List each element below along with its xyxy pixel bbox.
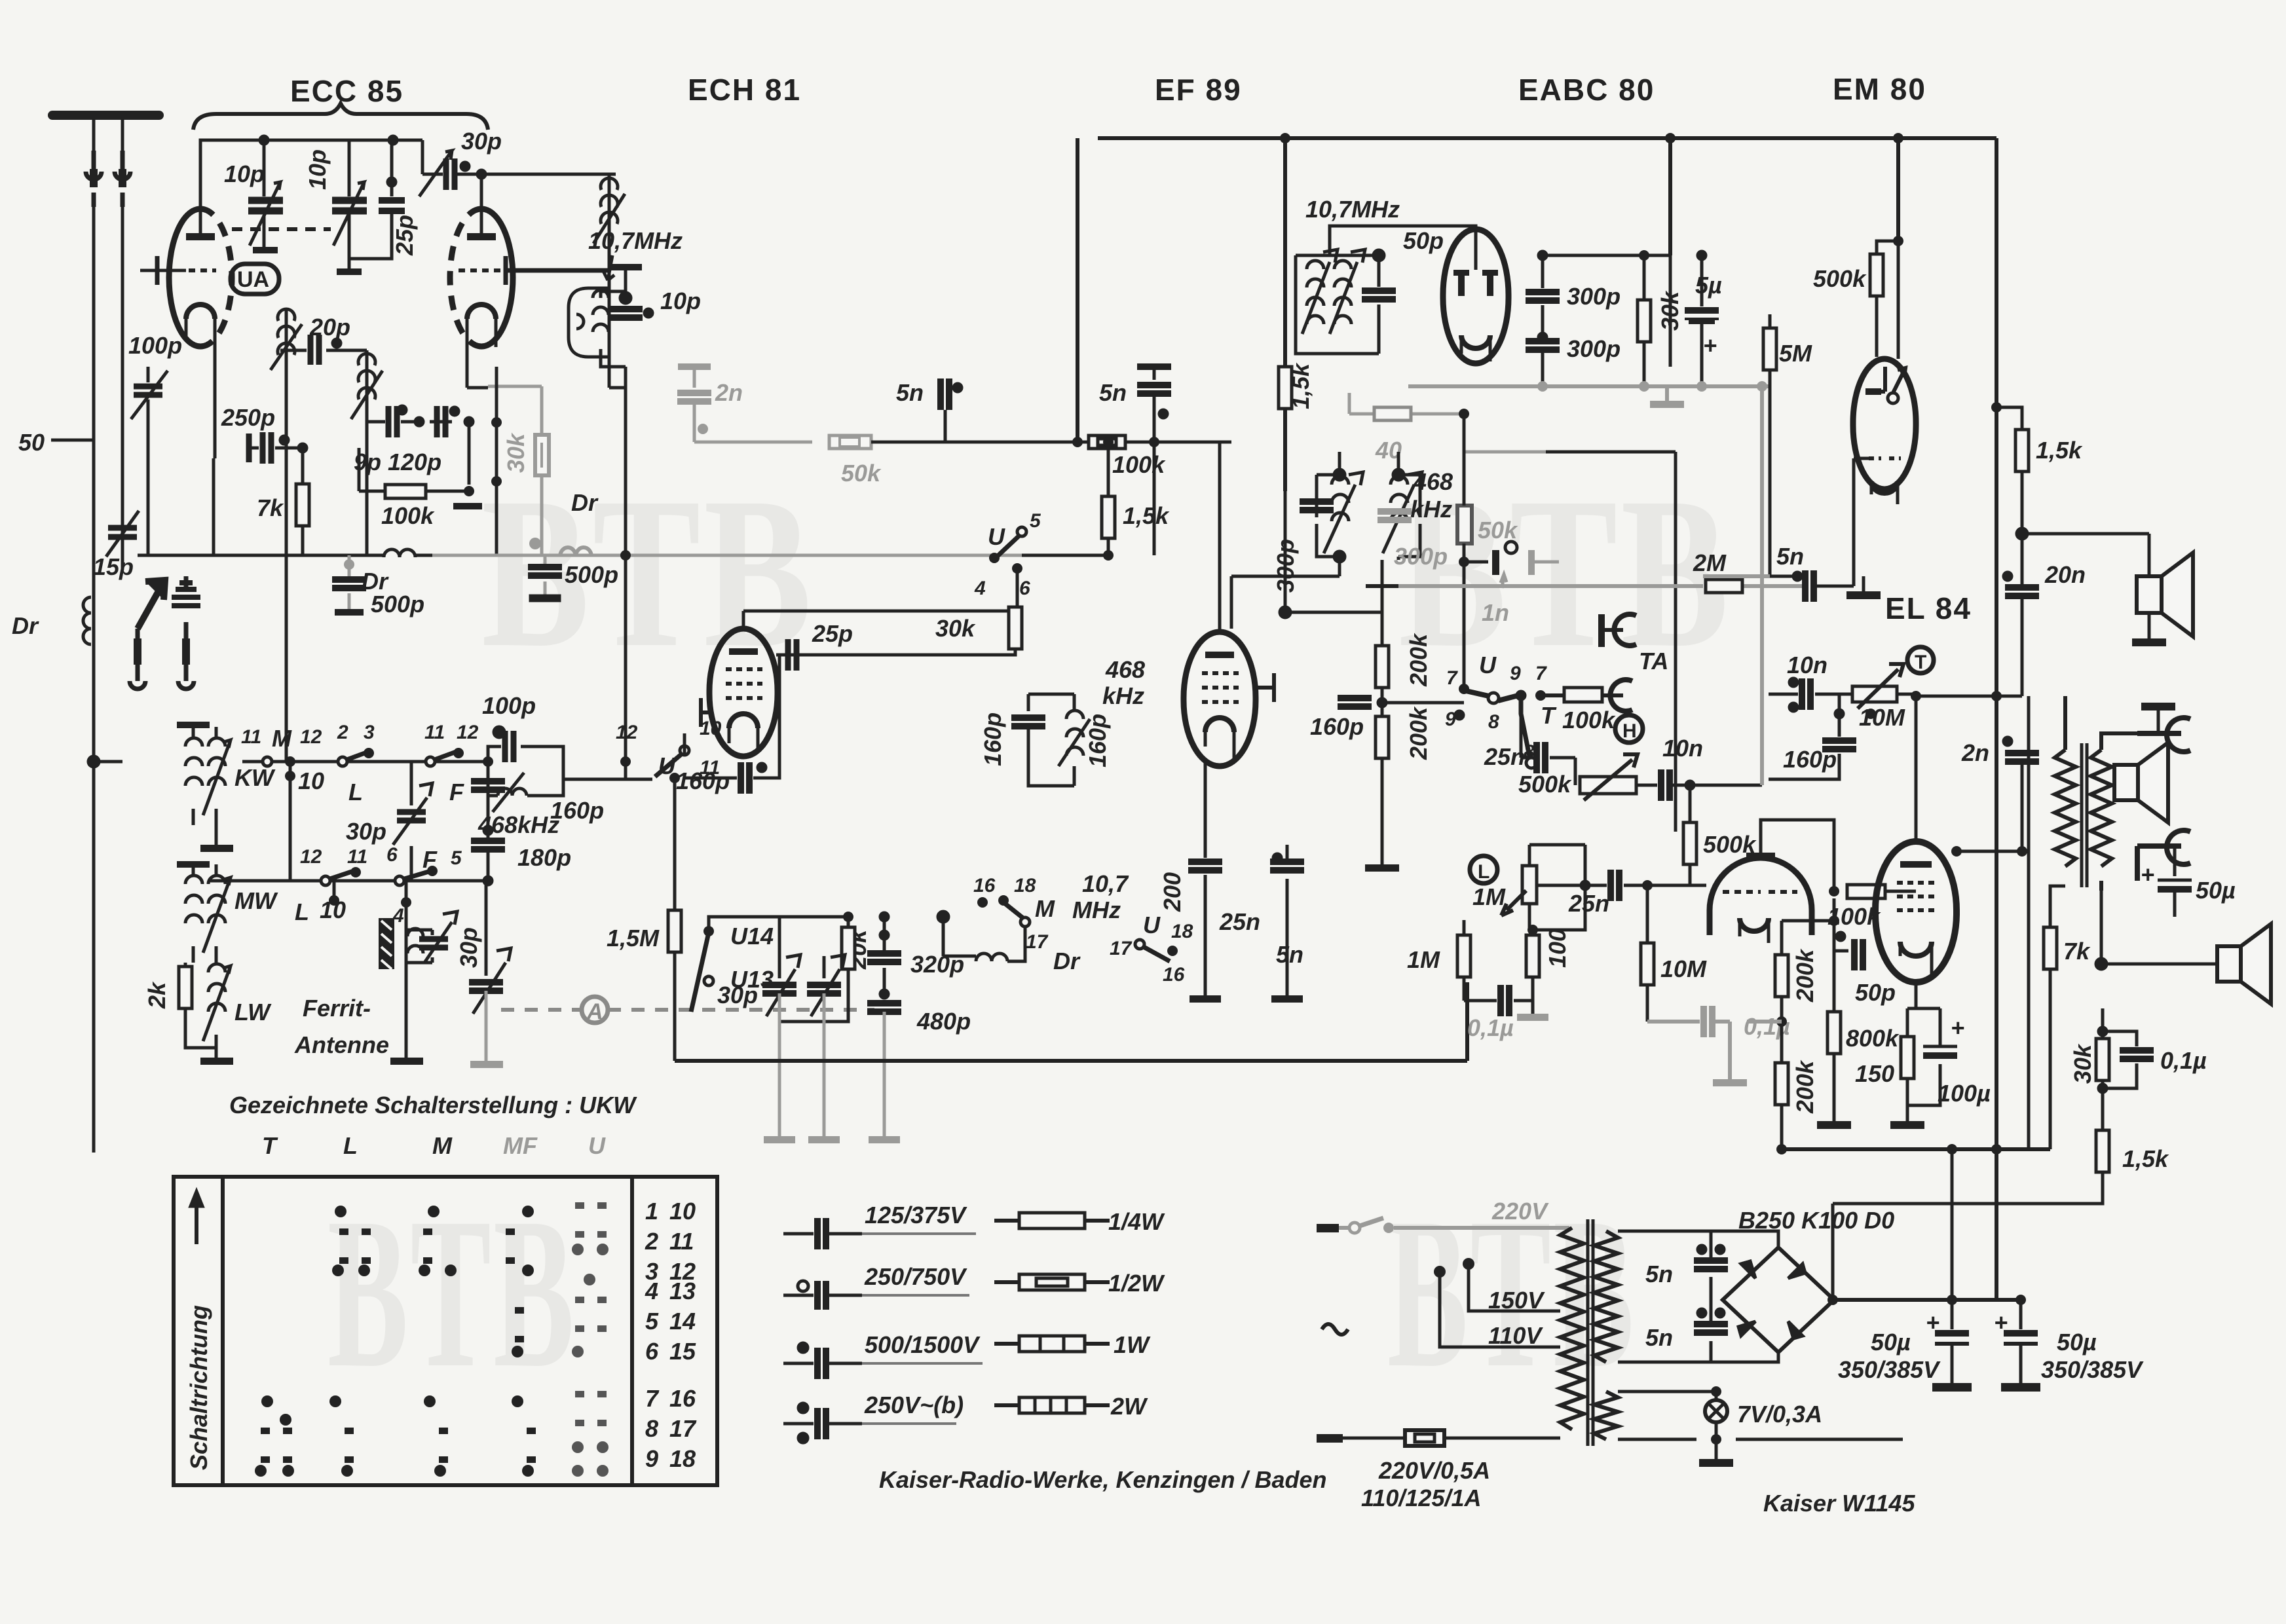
svg-text:14: 14: [669, 1308, 696, 1335]
switch position table frame: [174, 1177, 717, 1485]
svg-text:1M: 1M: [1407, 946, 1440, 973]
HT leads to bridge: [1618, 1231, 1778, 1362]
svg-text:+: +: [1951, 1014, 1964, 1041]
svg-text:MW: MW: [234, 887, 278, 914]
wire box feedback: [1464, 452, 1676, 832]
table row numbers: [645, 1198, 697, 1472]
svg-text:100µ: 100µ: [1938, 1080, 1991, 1107]
node A with dashed AGC line: [582, 997, 608, 1023]
wire main bottom bus: [675, 1059, 1467, 1063]
svg-text:5n: 5n: [1776, 543, 1804, 570]
antenna plug left: [86, 151, 102, 207]
svg-text:ECH 81: ECH 81: [688, 73, 801, 107]
coil KW antenna: [177, 725, 231, 845]
svg-text:1,5k: 1,5k: [1123, 502, 1170, 529]
svg-text:160p: 160p: [1310, 713, 1364, 740]
power transformer primary: [1560, 1219, 1593, 1446]
wire top bus to detector: [1543, 255, 1670, 367]
svg-text:100p: 100p: [128, 332, 182, 359]
wire row1 to oscillator switch: [576, 778, 616, 781]
svg-text:25p: 25p: [812, 620, 853, 647]
svg-text:500p: 500p: [565, 561, 618, 588]
svg-text:300p: 300p: [1394, 543, 1448, 570]
ferrite rod antenna: [379, 918, 394, 969]
svg-text:12: 12: [616, 722, 638, 743]
svg-text:12: 12: [300, 846, 322, 868]
svg-text:10p: 10p: [660, 287, 701, 314]
potentiometer 500k treble: [1615, 715, 1643, 743]
svg-text:160p: 160p: [1084, 714, 1111, 767]
svg-text:100: 100: [1544, 929, 1571, 968]
svg-text:EABC 80: EABC 80: [1518, 73, 1655, 107]
svg-text:5: 5: [1030, 510, 1041, 532]
svg-text:2n: 2n: [1961, 739, 1989, 766]
brace under ECC85: [193, 103, 488, 130]
svg-text:M: M: [272, 725, 292, 752]
svg-text:50µ: 50µ: [2057, 1329, 2097, 1356]
svg-text:7k: 7k: [2063, 938, 2091, 965]
svg-text:15: 15: [669, 1338, 696, 1365]
svg-text:2: 2: [645, 1228, 658, 1255]
svg-text:2n: 2n: [715, 379, 743, 406]
svg-text:H: H: [1622, 720, 1637, 742]
svg-text:0,1µ: 0,1µ: [1467, 1014, 1514, 1041]
svg-text:500/1500V: 500/1500V: [865, 1331, 981, 1358]
svg-text:11: 11: [669, 1228, 694, 1255]
svg-text:L: L: [343, 1132, 358, 1159]
svg-text:A: A: [586, 999, 603, 1024]
svg-text:10,7MHz: 10,7MHz: [1305, 196, 1400, 223]
svg-text:2k: 2k: [143, 981, 170, 1009]
svg-text:300p: 300p: [1567, 335, 1621, 362]
svg-text:17: 17: [669, 1415, 697, 1442]
svg-text:M: M: [1035, 895, 1055, 922]
capacitor 15p variable: [121, 504, 124, 570]
svg-text:16: 16: [1163, 964, 1185, 986]
svg-text:16: 16: [973, 875, 996, 896]
badge UA: [231, 264, 279, 294]
svg-text:110V: 110V: [1488, 1322, 1543, 1349]
svg-text:200k: 200k: [1405, 633, 1432, 687]
svg-text:20p: 20p: [309, 314, 350, 341]
svg-text:300p: 300p: [1567, 283, 1621, 310]
svg-text:500k: 500k: [1813, 265, 1867, 292]
svg-text:50k: 50k: [1478, 517, 1518, 544]
svg-text:Dr: Dr: [1053, 948, 1081, 974]
svg-text:100k: 100k: [381, 502, 435, 529]
svg-text:20n: 20n: [2044, 561, 2086, 588]
AVC bus gray: [1366, 584, 1808, 588]
mains switch: [1317, 1224, 1339, 1232]
svg-text:11: 11: [347, 846, 367, 868]
tube ECH81 heptode: [701, 611, 778, 756]
wire bus 848 black tail: [1022, 554, 1107, 557]
svg-text:6: 6: [386, 844, 398, 866]
svg-text:480p: 480p: [916, 1008, 971, 1035]
svg-text:1n: 1n: [1482, 599, 1509, 626]
transformer HT secondary: [1594, 1231, 1618, 1362]
svg-text:Antenne: Antenne: [294, 1031, 389, 1058]
svg-text:25n: 25n: [1568, 890, 1609, 917]
svg-text:Gezeichnete Schalterstellung :: Gezeichnete Schalterstellung : UKW: [229, 1092, 637, 1118]
svg-text:5n: 5n: [1645, 1324, 1673, 1351]
svg-text:120p: 120p: [388, 449, 441, 475]
speaker output mid: [2114, 743, 2168, 822]
svg-text:M: M: [432, 1132, 453, 1159]
svg-text:1W: 1W: [1114, 1331, 1151, 1358]
wire top B+ bus: [1077, 138, 1996, 1300]
svg-text:220V/0,5A: 220V/0,5A: [1378, 1457, 1490, 1484]
svg-text:KW: KW: [234, 764, 276, 791]
svg-text:468: 468: [1105, 656, 1145, 683]
svg-text:25p: 25p: [391, 215, 418, 256]
svg-text:9: 9: [1510, 663, 1521, 684]
svg-text:1M: 1M: [1472, 883, 1506, 910]
svg-text:25n: 25n: [1219, 908, 1260, 935]
capacitor 250p: [147, 485, 150, 517]
svg-text:T: T: [262, 1132, 278, 1159]
gray bus with coil: [432, 554, 1022, 557]
svg-text:MF: MF: [503, 1132, 538, 1159]
svg-text:1/2W: 1/2W: [1108, 1270, 1165, 1297]
svg-text:160p: 160p: [979, 712, 1006, 766]
coil interstage: [271, 308, 302, 762]
svg-text:10: 10: [700, 718, 722, 739]
svg-text:18: 18: [1171, 921, 1193, 942]
output transformer: [2055, 696, 2141, 891]
bus bottom right: [1778, 1147, 2050, 1151]
trimmer capacitor 10p #1: [248, 135, 283, 253]
capacitor 100p variable: [147, 367, 150, 485]
svg-text:LW: LW: [234, 999, 272, 1025]
ground stub: [453, 503, 482, 509]
wire EL84 anode junction row: [1957, 850, 2022, 853]
svg-text:MHz: MHz: [1072, 896, 1121, 923]
svg-text:17: 17: [1026, 931, 1049, 953]
svg-text:L: L: [348, 779, 363, 805]
svg-text:5n: 5n: [1276, 941, 1303, 968]
svg-text:500p: 500p: [371, 591, 424, 618]
svg-text:18: 18: [1014, 875, 1036, 896]
svg-text:160p: 160p: [676, 767, 730, 794]
svg-text:18: 18: [669, 1445, 696, 1472]
svg-text:1/4W: 1/4W: [1108, 1208, 1165, 1235]
svg-text:9: 9: [1445, 709, 1456, 730]
svg-text:10p: 10p: [304, 149, 331, 190]
svg-text:EF 89: EF 89: [1155, 73, 1242, 107]
svg-text:U: U: [1143, 912, 1161, 938]
wire EM80 grid from 5n: [1854, 458, 1869, 586]
svg-text:EM 80: EM 80: [1833, 72, 1926, 106]
tube EABC80 triode: [1710, 841, 1812, 943]
switch row 2 pins 12 11 6 F 5: [210, 871, 488, 885]
svg-text:30k: 30k: [502, 432, 529, 473]
svg-text:30k: 30k: [1657, 290, 1683, 331]
svg-text:10p: 10p: [224, 160, 265, 187]
svg-text:5n: 5n: [896, 379, 924, 406]
antenna plug right: [115, 151, 130, 207]
svg-text:50p: 50p: [1855, 979, 1896, 1006]
wire IF2 to EF89 anode: [1231, 560, 1382, 629]
counterpoise capacitor symbol: [172, 576, 200, 689]
svg-text:U14: U14: [730, 923, 774, 950]
svg-text:7: 7: [645, 1385, 660, 1412]
triode V1a ECC85: [140, 140, 422, 458]
svg-text:+: +: [1703, 332, 1717, 359]
svg-text:10M: 10M: [1660, 955, 1707, 982]
node 50 lead: [51, 439, 94, 442]
gray return bus det: [1408, 386, 1769, 586]
svg-text:T: T: [1541, 702, 1557, 729]
svg-text:12: 12: [457, 722, 479, 743]
svg-text:Ferrit-: Ferrit-: [303, 995, 371, 1022]
speaker field coil top: [2137, 553, 2193, 638]
coil LW: [185, 956, 231, 1058]
svg-text:7: 7: [1446, 667, 1458, 689]
symbol AC: [1322, 1324, 1348, 1335]
svg-text:5n: 5n: [1645, 1261, 1673, 1287]
svg-text:200k: 200k: [1405, 706, 1432, 760]
svg-text:8: 8: [645, 1415, 658, 1442]
ground EL84 label: [1862, 576, 1865, 591]
svg-text:300p: 300p: [1272, 539, 1299, 593]
svg-text:6: 6: [1019, 578, 1030, 599]
svg-text:T: T: [1915, 652, 1926, 673]
svg-text:10n: 10n: [1787, 652, 1827, 678]
svg-text:15p: 15p: [93, 553, 134, 580]
svg-text:1: 1: [645, 1198, 658, 1225]
svg-text:200: 200: [1159, 872, 1186, 912]
capacitor 300p gray IF2: [1377, 458, 1412, 557]
svg-text:150V: 150V: [1488, 1287, 1545, 1314]
svg-text:Schaltrichtung: Schaltrichtung: [185, 1305, 212, 1470]
IF transformer 468kHz no1: [1011, 694, 1090, 786]
svg-text:Dr: Dr: [12, 612, 39, 639]
svg-text:30p: 30p: [461, 128, 502, 155]
svg-text:5: 5: [451, 847, 462, 869]
svg-text:L: L: [295, 898, 309, 925]
svg-text:4: 4: [974, 578, 986, 599]
tube EL84 output pentode: [1875, 696, 1957, 982]
svg-text:50: 50: [18, 429, 45, 456]
potentiometer 1M volume: [1470, 856, 1497, 883]
mains plug and fuse: [1317, 1434, 1343, 1443]
svg-text:200k: 200k: [1791, 948, 1818, 1003]
wire EL84 screen to speaker field: [2017, 528, 2149, 576]
svg-text:11: 11: [241, 726, 261, 748]
svg-text:100k: 100k: [1562, 707, 1616, 733]
svg-text:10M: 10M: [1859, 704, 1905, 731]
svg-text:16: 16: [669, 1385, 696, 1412]
svg-text:B250 K100 D0: B250 K100 D0: [1738, 1207, 1894, 1234]
svg-text:17: 17: [1110, 938, 1133, 959]
svg-text:7k: 7k: [257, 494, 284, 521]
svg-text:2: 2: [337, 722, 348, 743]
voltage taps 150V 110V: [1434, 1266, 1446, 1278]
svg-text:U: U: [588, 1132, 606, 1159]
svg-text:100p: 100p: [482, 692, 536, 719]
svg-text:10,7MHz: 10,7MHz: [588, 227, 683, 254]
svg-text:10n: 10n: [1662, 735, 1703, 762]
svg-text:350/385V: 350/385V: [1838, 1356, 1941, 1383]
svg-text:800k: 800k: [1846, 1025, 1900, 1052]
coil V1b plate: [593, 174, 626, 388]
svg-text:4: 4: [645, 1278, 658, 1304]
svg-text:F: F: [449, 779, 464, 805]
svg-text:180p: 180p: [517, 844, 571, 871]
svg-text:5µ: 5µ: [1695, 272, 1722, 299]
svg-text:U: U: [988, 523, 1005, 550]
coil Dr left: [92, 589, 96, 661]
trimmer capacitor 10p #2: [332, 135, 398, 275]
wire anode row y1063: [1916, 695, 2022, 698]
svg-text:200k: 200k: [1791, 1060, 1818, 1114]
switch row 1 pins 11 M 12 / 2 3 / 11 12: [242, 751, 488, 766]
tube EABC80 diode section: [1443, 229, 1508, 363]
speaker bottom right: [2217, 924, 2271, 1004]
svg-text:6: 6: [645, 1338, 659, 1365]
coil Dr body: [83, 597, 91, 644]
svg-text:EL 84: EL 84: [1885, 591, 1972, 625]
terminal hooks: [2137, 703, 2190, 881]
dipole arrow symbol: [130, 580, 165, 689]
svg-text:10: 10: [669, 1198, 696, 1225]
svg-text:30p: 30p: [455, 927, 482, 968]
svg-text:30k: 30k: [935, 615, 976, 642]
svg-text:TA: TA: [1639, 648, 1668, 674]
svg-text:13: 13: [669, 1278, 696, 1304]
svg-text:12: 12: [300, 726, 322, 748]
svg-text:0,1µ: 0,1µ: [2160, 1047, 2207, 1074]
svg-text:220V: 220V: [1491, 1198, 1549, 1225]
svg-text:kHz: kHz: [1410, 496, 1452, 523]
B+ output to electrolytics: [1834, 1298, 2021, 1302]
resistor 50: [121, 440, 124, 570]
svg-text:50p: 50p: [1403, 227, 1444, 254]
wire V1a anode down: [148, 458, 214, 555]
svg-text:ECC 85: ECC 85: [290, 74, 403, 108]
tuning capacitor with arrow: [469, 881, 511, 1014]
wire B+ vertical right: [2027, 696, 2031, 1149]
svg-text:30p: 30p: [346, 818, 386, 845]
tube EF89 pentode: [1184, 442, 1274, 766]
svg-text:+: +: [2141, 861, 2154, 888]
svg-text:150: 150: [1855, 1060, 1894, 1087]
wire antenna feeders: [92, 207, 96, 762]
svg-text:50k: 50k: [841, 460, 882, 487]
table contact symbols: [255, 1206, 536, 1477]
svg-text:Kaiser W1145: Kaiser W1145: [1763, 1490, 1915, 1517]
arrow direction: [189, 1188, 204, 1244]
svg-text:Kaiser-Radio-Werke, Kenzingen: Kaiser-Radio-Werke, Kenzingen / Baden: [879, 1466, 1327, 1493]
svg-text:U: U: [1479, 652, 1497, 678]
svg-text:160p: 160p: [550, 797, 604, 824]
svg-text:5: 5: [645, 1308, 659, 1335]
coil MW: [177, 864, 231, 963]
ratio detector transformer: [1296, 226, 1476, 354]
svg-text:7: 7: [1535, 663, 1547, 684]
pin 10 stub row1: [285, 771, 295, 781]
svg-text:350/385V: 350/385V: [2041, 1356, 2144, 1383]
svg-text:1,5k: 1,5k: [2122, 1145, 2169, 1172]
svg-text:F: F: [422, 846, 438, 873]
coil V1b grid: [351, 350, 383, 555]
svg-text:2M: 2M: [1693, 549, 1727, 576]
tube EM80 magic eye: [1853, 359, 1916, 504]
svg-text:1,5k: 1,5k: [2036, 437, 2083, 464]
svg-text:10,7: 10,7: [1082, 870, 1129, 897]
svg-text:50µ: 50µ: [1871, 1329, 1911, 1356]
svg-text:BTB: BTB: [328, 1173, 576, 1412]
svg-text:8: 8: [1488, 711, 1499, 733]
svg-text:kHz: kHz: [1102, 682, 1144, 709]
svg-text:3: 3: [364, 722, 375, 743]
svg-text:30p: 30p: [717, 982, 758, 1008]
svg-text:Dr: Dr: [571, 489, 599, 516]
svg-text:10: 10: [298, 767, 324, 794]
svg-text:9: 9: [645, 1445, 658, 1472]
svg-text:2W: 2W: [1110, 1393, 1148, 1420]
svg-text:30k: 30k: [2069, 1043, 2096, 1084]
svg-text:125/375V: 125/375V: [865, 1202, 967, 1228]
svg-text:5M: 5M: [1779, 340, 1812, 367]
svg-text:500k: 500k: [1518, 771, 1572, 798]
wire triode anode to EL84 grid: [1761, 820, 1834, 891]
svg-text:L: L: [1478, 861, 1490, 883]
svg-text:11: 11: [424, 722, 445, 743]
svg-text:50µ: 50µ: [2196, 877, 2236, 904]
dipole antenna T bar: [52, 111, 159, 120]
svg-text:7V/0,3A: 7V/0,3A: [1737, 1401, 1822, 1428]
resistor 100k EL84 grid: [1847, 885, 1885, 898]
dashed AGC line through triodes: [232, 227, 331, 231]
svg-text:250p: 250p: [221, 404, 275, 431]
svg-text:250V~(b): 250V~(b): [864, 1392, 964, 1418]
svg-text:5n: 5n: [1099, 379, 1127, 406]
svg-text:25n: 25n: [1484, 743, 1525, 770]
capacitor 25p: [349, 140, 405, 259]
svg-text:UA: UA: [237, 267, 269, 292]
svg-text:250/750V: 250/750V: [864, 1263, 967, 1290]
wire left column to switch bank: [88, 756, 122, 1153]
svg-text:110/125/1A: 110/125/1A: [1361, 1485, 1481, 1511]
triode V1b ECC85: [450, 169, 609, 354]
svg-text:100k: 100k: [1112, 451, 1166, 478]
transformer heater winding: [1594, 1392, 1618, 1439]
hairpin loop coil: [569, 288, 609, 357]
svg-text:1,5M: 1,5M: [607, 925, 660, 951]
